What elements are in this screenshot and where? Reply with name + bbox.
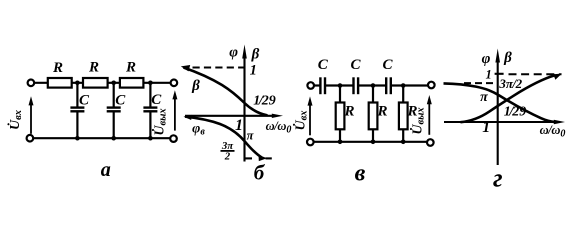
svg-text:C: C <box>350 57 361 73</box>
svg-text:φ: φ <box>482 51 491 67</box>
svg-text:1/29: 1/29 <box>504 104 526 119</box>
svg-text:R: R <box>376 103 387 119</box>
svg-text:1/29: 1/29 <box>253 94 275 109</box>
svg-text:R: R <box>52 60 63 76</box>
svg-text:C: C <box>151 92 162 108</box>
svg-text:R: R <box>343 103 354 119</box>
svg-text:1: 1 <box>235 117 243 134</box>
svg-text:2: 2 <box>224 151 231 163</box>
svg-text:1: 1 <box>485 67 491 81</box>
svg-text:φ: φ <box>229 45 238 61</box>
svg-text:в: в <box>355 161 366 187</box>
svg-text:C: C <box>318 57 329 73</box>
svg-text:3π/2: 3π/2 <box>498 76 522 91</box>
svg-text:β: β <box>191 78 200 94</box>
svg-text:R: R <box>88 60 99 76</box>
svg-text:β: β <box>251 47 260 63</box>
svg-text:1: 1 <box>250 62 257 78</box>
svg-text:б: б <box>254 161 266 185</box>
svg-text:R: R <box>125 60 136 76</box>
svg-text:π: π <box>247 129 255 143</box>
svg-text:C: C <box>382 57 393 73</box>
svg-text:C: C <box>79 92 90 108</box>
svg-text:π: π <box>480 90 488 105</box>
svg-text:1: 1 <box>482 119 490 136</box>
svg-text:а: а <box>101 159 111 181</box>
svg-text:β: β <box>503 50 512 66</box>
svg-text:C: C <box>115 92 126 108</box>
svg-text:г: г <box>493 163 503 192</box>
